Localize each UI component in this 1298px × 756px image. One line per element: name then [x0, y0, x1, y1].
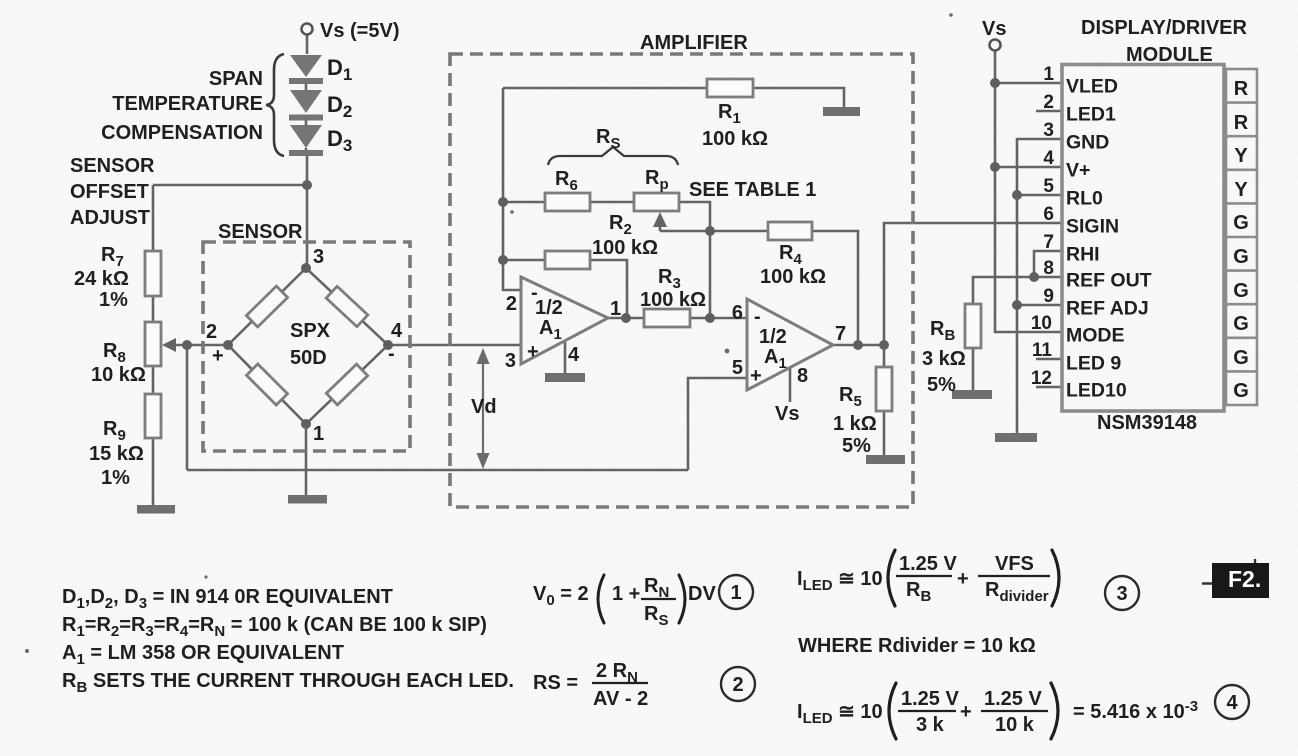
svg-text:LED1: LED1	[1066, 104, 1116, 126]
svg-text:G: G	[1233, 280, 1249, 302]
svg-text:Y: Y	[1234, 179, 1248, 201]
svg-text:7: 7	[835, 323, 846, 345]
svg-text:F2.: F2.	[1228, 566, 1261, 592]
svg-text:1: 1	[730, 582, 741, 604]
svg-text:VLED: VLED	[1066, 76, 1118, 98]
svg-text:8: 8	[797, 365, 808, 387]
svg-text:DISPLAY/DRIVER: DISPLAY/DRIVER	[1081, 17, 1248, 39]
svg-text:COMPENSATION: COMPENSATION	[101, 122, 263, 144]
svg-text:-: -	[388, 343, 395, 365]
svg-text:OFFSET: OFFSET	[70, 181, 149, 203]
svg-text:RL0: RL0	[1066, 188, 1103, 210]
svg-text:TEMPERATURE: TEMPERATURE	[112, 93, 263, 115]
svg-text:GND: GND	[1066, 132, 1109, 154]
svg-text:NSM39148: NSM39148	[1097, 412, 1197, 434]
svg-text:+: +	[212, 345, 224, 367]
svg-text:REF OUT: REF OUT	[1066, 270, 1152, 292]
svg-text:5%: 5%	[927, 374, 956, 396]
svg-text:G: G	[1233, 347, 1249, 369]
svg-text:1: 1	[313, 423, 324, 445]
svg-text:2: 2	[1043, 92, 1054, 113]
svg-text:RS =: RS =	[533, 672, 578, 694]
svg-text:1/2: 1/2	[759, 326, 787, 348]
svg-text:100 kΩ: 100 kΩ	[760, 266, 826, 288]
svg-text:11: 11	[1032, 340, 1053, 361]
svg-text:AMPLIFIER: AMPLIFIER	[640, 32, 748, 54]
svg-text:ADJUST: ADJUST	[70, 207, 150, 229]
svg-text:R: R	[1234, 112, 1249, 134]
svg-text:1.25 V: 1.25 V	[901, 688, 959, 710]
svg-text:AV - 2: AV - 2	[593, 688, 648, 710]
svg-text:RHI: RHI	[1066, 244, 1100, 266]
svg-text:24 kΩ: 24 kΩ	[74, 268, 129, 290]
svg-text:G: G	[1233, 246, 1249, 268]
svg-text:6: 6	[1043, 204, 1054, 225]
svg-text:4: 4	[568, 344, 580, 366]
svg-text:1: 1	[610, 298, 621, 320]
svg-text:1.25 V: 1.25 V	[899, 553, 957, 575]
svg-text:100 kΩ: 100 kΩ	[592, 237, 658, 259]
svg-text:V+: V+	[1066, 160, 1090, 182]
svg-text:1%: 1%	[101, 467, 130, 489]
svg-text:3: 3	[505, 350, 516, 372]
svg-text:G: G	[1233, 313, 1249, 335]
svg-text:1 +: 1 +	[612, 583, 640, 605]
svg-text:4: 4	[1226, 692, 1238, 714]
svg-text:REF ADJ: REF ADJ	[1066, 298, 1149, 320]
svg-text:VFS: VFS	[995, 553, 1034, 575]
svg-text:Y: Y	[1234, 145, 1248, 167]
svg-text:+: +	[750, 365, 762, 387]
svg-text:10 kΩ: 10 kΩ	[91, 364, 146, 386]
svg-text:SENSOR: SENSOR	[218, 221, 303, 243]
svg-text:1.25 V: 1.25 V	[984, 688, 1042, 710]
svg-text:+: +	[960, 701, 972, 723]
svg-text:Vs: Vs	[775, 403, 799, 425]
svg-text:2: 2	[206, 321, 217, 343]
svg-text:SENSOR: SENSOR	[70, 155, 155, 177]
svg-text:5: 5	[732, 357, 743, 379]
svg-text:G: G	[1233, 380, 1249, 402]
svg-text:4: 4	[1043, 148, 1054, 169]
svg-text:8: 8	[1043, 258, 1054, 279]
svg-text:Vs: Vs	[982, 18, 1006, 40]
svg-text:12: 12	[1031, 368, 1052, 389]
svg-text:LED10: LED10	[1066, 380, 1127, 402]
svg-text:SPAN: SPAN	[209, 68, 263, 90]
svg-text:10: 10	[1031, 313, 1052, 334]
svg-text:SEE TABLE 1: SEE TABLE 1	[689, 179, 816, 201]
svg-text:2: 2	[506, 293, 517, 315]
svg-text:Vd: Vd	[471, 396, 497, 418]
svg-text:-: -	[754, 306, 761, 328]
svg-text:SPX: SPX	[290, 320, 331, 342]
svg-text:WHERE Rdivider = 10 kΩ: WHERE Rdivider = 10 kΩ	[798, 635, 1036, 657]
svg-text:6: 6	[732, 302, 743, 324]
svg-text:+: +	[527, 341, 539, 363]
svg-text:4: 4	[391, 320, 403, 342]
svg-text:9: 9	[1043, 286, 1054, 307]
svg-text:2: 2	[732, 674, 743, 696]
svg-text:3 k: 3 k	[916, 714, 945, 736]
svg-text:3 kΩ: 3 kΩ	[922, 348, 966, 370]
svg-text:10 k: 10 k	[995, 714, 1035, 736]
svg-text:+: +	[957, 568, 969, 590]
svg-text:3: 3	[1116, 583, 1127, 605]
svg-text:MODE: MODE	[1066, 325, 1125, 347]
svg-text:15 kΩ: 15 kΩ	[89, 443, 144, 465]
svg-text:MODULE: MODULE	[1126, 44, 1213, 66]
svg-text:7: 7	[1043, 232, 1054, 253]
svg-text:R: R	[1234, 78, 1249, 100]
svg-text:5: 5	[1043, 176, 1054, 197]
svg-text:DV: DV	[688, 583, 716, 605]
svg-text:Vs (=5V): Vs (=5V)	[320, 20, 399, 42]
svg-text:100 kΩ: 100 kΩ	[702, 128, 768, 150]
svg-text:50D: 50D	[290, 347, 327, 369]
svg-text:= 5.416 x 10-3: = 5.416 x 10-3	[1073, 698, 1198, 723]
svg-text:LED 9: LED 9	[1066, 353, 1121, 375]
svg-text:5%: 5%	[842, 435, 871, 457]
svg-text:1 kΩ: 1 kΩ	[833, 413, 877, 435]
svg-text:3: 3	[313, 246, 324, 268]
svg-text:SIGIN: SIGIN	[1066, 216, 1119, 238]
svg-text:1: 1	[1043, 64, 1054, 85]
svg-text:G: G	[1233, 212, 1249, 234]
svg-text:1/2: 1/2	[535, 297, 563, 319]
svg-text:100 kΩ: 100 kΩ	[640, 289, 706, 311]
svg-text:1%: 1%	[99, 289, 128, 311]
svg-text:3: 3	[1043, 120, 1054, 141]
